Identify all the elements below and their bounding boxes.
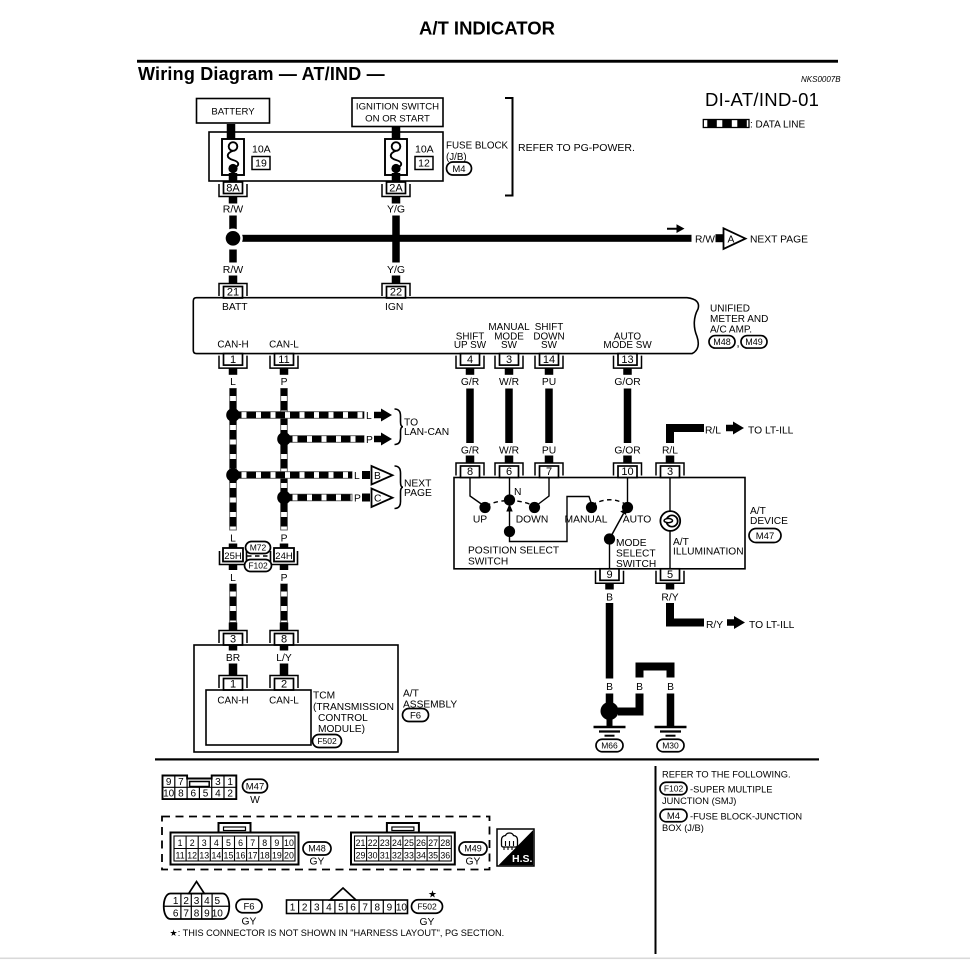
svg-text:6: 6 — [190, 789, 196, 800]
svg-text:JUNCTION (SMJ): JUNCTION (SMJ) — [662, 796, 736, 806]
svg-text:7: 7 — [362, 903, 368, 914]
svg-text:1: 1 — [290, 903, 296, 914]
svg-text:9: 9 — [606, 569, 612, 581]
svg-text:M49: M49 — [464, 844, 482, 854]
svg-text:R/L: R/L — [662, 446, 678, 457]
svg-text:F6: F6 — [243, 901, 254, 912]
svg-text:G/OR: G/OR — [614, 377, 640, 388]
svg-text:6: 6 — [238, 838, 243, 848]
svg-text:BATTERY: BATTERY — [211, 107, 255, 118]
svg-text:28: 28 — [440, 838, 450, 848]
svg-text:P: P — [281, 573, 288, 584]
svg-text:4: 4 — [467, 354, 473, 366]
svg-text:NEXT PAGE: NEXT PAGE — [750, 234, 808, 245]
svg-text:A/T: A/T — [403, 689, 419, 700]
svg-text:10: 10 — [621, 466, 633, 478]
svg-text:C: C — [374, 494, 382, 505]
svg-text:8: 8 — [178, 789, 184, 800]
svg-text:2: 2 — [190, 838, 195, 848]
svg-text:2: 2 — [227, 789, 233, 800]
svg-text:F102: F102 — [248, 560, 268, 570]
svg-text:4: 4 — [215, 789, 221, 800]
svg-text:PAGE: PAGE — [404, 488, 432, 499]
svg-text:Y/G: Y/G — [387, 264, 405, 276]
svg-text:34: 34 — [416, 851, 426, 861]
svg-text:DI-AT/IND-01: DI-AT/IND-01 — [705, 89, 819, 110]
svg-text:SELECT: SELECT — [616, 549, 656, 560]
svg-text:12: 12 — [418, 158, 430, 170]
svg-text:TCM: TCM — [313, 691, 335, 702]
svg-text:M4: M4 — [667, 811, 680, 822]
svg-text:TO LT-ILL: TO LT-ILL — [748, 426, 794, 437]
svg-text:IGNITION SWITCH: IGNITION SWITCH — [356, 102, 439, 113]
svg-text:W/R: W/R — [499, 377, 519, 388]
svg-text:10A: 10A — [252, 144, 271, 156]
svg-text:A: A — [728, 235, 735, 246]
svg-text:REFER TO PG-POWER.: REFER TO PG-POWER. — [518, 142, 635, 154]
svg-text:B: B — [374, 471, 381, 482]
svg-text:★: THIS CONNECTOR IS NOT SHOWN: ★: THIS CONNECTOR IS NOT SHOWN IN "HARNE… — [170, 928, 505, 938]
svg-text:10: 10 — [212, 909, 224, 920]
svg-text:15: 15 — [224, 851, 234, 861]
svg-text:33: 33 — [404, 851, 414, 861]
svg-text:M49: M49 — [745, 337, 763, 347]
svg-text:G/R: G/R — [461, 446, 479, 457]
svg-text:H.S.: H.S. — [512, 853, 533, 865]
svg-text:3: 3 — [215, 777, 221, 788]
svg-text:★: ★ — [428, 890, 437, 901]
svg-text:UP SW: UP SW — [454, 340, 487, 351]
svg-text:CAN-H: CAN-H — [217, 340, 248, 351]
svg-text:M66: M66 — [601, 740, 618, 750]
svg-text:18: 18 — [260, 851, 270, 861]
svg-text:32: 32 — [392, 851, 402, 861]
svg-text:3: 3 — [202, 838, 207, 848]
svg-text:B: B — [606, 682, 613, 693]
svg-text:AUTO: AUTO — [623, 515, 651, 526]
svg-text:7: 7 — [178, 777, 184, 788]
svg-text:GY: GY — [242, 917, 257, 928]
svg-text:PU: PU — [542, 446, 556, 457]
svg-text:23: 23 — [380, 838, 390, 848]
svg-text:22: 22 — [390, 286, 402, 298]
svg-text:P: P — [281, 377, 288, 388]
svg-text:4: 4 — [326, 903, 332, 914]
svg-text:R/Y: R/Y — [661, 593, 678, 604]
svg-text:12: 12 — [187, 851, 197, 861]
svg-text:2: 2 — [183, 896, 189, 907]
svg-text:M30: M30 — [662, 740, 679, 750]
svg-text:TO LT-ILL: TO LT-ILL — [749, 620, 795, 631]
svg-text:21: 21 — [356, 838, 366, 848]
svg-text:20: 20 — [284, 851, 294, 861]
svg-text:ON OR START: ON OR START — [365, 114, 430, 125]
svg-text:5: 5 — [338, 903, 344, 914]
svg-text:F6: F6 — [410, 710, 421, 721]
svg-text:M47: M47 — [756, 531, 774, 542]
svg-text:MANUAL: MANUAL — [565, 515, 608, 526]
svg-text:ILLUMINATION: ILLUMINATION — [673, 547, 744, 558]
svg-text:B: B — [636, 682, 643, 693]
svg-text:REFER TO THE FOLLOWING.: REFER TO THE FOLLOWING. — [662, 770, 791, 780]
svg-text:2A: 2A — [389, 182, 403, 194]
svg-text:METER AND: METER AND — [710, 314, 768, 325]
svg-text:3: 3 — [667, 466, 673, 478]
svg-text:M48: M48 — [308, 844, 326, 854]
svg-text:(TRANSMISSION: (TRANSMISSION — [313, 702, 394, 713]
svg-text:6: 6 — [173, 909, 179, 920]
svg-text:1: 1 — [227, 777, 233, 788]
svg-text:NKS0007B: NKS0007B — [801, 75, 841, 84]
svg-text:26: 26 — [416, 838, 426, 848]
svg-text:F502: F502 — [317, 736, 337, 746]
svg-text:13: 13 — [621, 354, 633, 366]
svg-text:LAN-CAN: LAN-CAN — [404, 427, 449, 438]
svg-text:9: 9 — [204, 909, 210, 920]
svg-text:30: 30 — [368, 851, 378, 861]
svg-text:B: B — [606, 593, 613, 604]
svg-text:L/Y: L/Y — [276, 653, 292, 664]
svg-text:F102: F102 — [664, 783, 684, 793]
svg-text:8: 8 — [194, 909, 200, 920]
svg-text:G/OR: G/OR — [614, 446, 640, 457]
svg-text:17: 17 — [248, 851, 258, 861]
svg-text:L: L — [366, 411, 372, 422]
svg-text:25: 25 — [404, 838, 414, 848]
svg-text:9: 9 — [166, 777, 172, 788]
svg-text:M48: M48 — [713, 337, 731, 347]
svg-text:P: P — [366, 435, 373, 446]
svg-text:5: 5 — [667, 569, 673, 581]
svg-text:16: 16 — [236, 851, 246, 861]
svg-text:: DATA LINE: : DATA LINE — [750, 120, 806, 131]
svg-text:8A: 8A — [226, 182, 240, 194]
svg-text:R/W: R/W — [223, 264, 244, 276]
svg-text:36: 36 — [440, 851, 450, 861]
svg-text:19: 19 — [272, 851, 282, 861]
svg-text:W: W — [250, 795, 260, 806]
svg-text:24: 24 — [392, 838, 402, 848]
svg-text:11: 11 — [278, 354, 289, 366]
svg-text:MODE SW: MODE SW — [603, 340, 652, 351]
svg-text:L: L — [230, 377, 236, 388]
svg-text:3: 3 — [230, 633, 236, 645]
svg-text:DOWN: DOWN — [516, 515, 549, 526]
svg-text:-FUSE BLOCK-JUNCTION: -FUSE BLOCK-JUNCTION — [690, 812, 802, 822]
svg-text:G/R: G/R — [461, 377, 479, 388]
svg-text:M4: M4 — [452, 164, 465, 175]
svg-text:14: 14 — [543, 354, 555, 366]
svg-text:FUSE BLOCK: FUSE BLOCK — [446, 141, 509, 152]
svg-text:2: 2 — [281, 678, 287, 690]
svg-text:3: 3 — [314, 903, 320, 914]
svg-text:8: 8 — [467, 466, 473, 478]
svg-text:14: 14 — [211, 851, 221, 861]
svg-text:3: 3 — [506, 354, 512, 366]
svg-text:B: B — [667, 682, 674, 693]
svg-text:19: 19 — [255, 158, 267, 170]
svg-text:SW: SW — [501, 340, 518, 351]
svg-text:BR: BR — [226, 653, 240, 664]
svg-text:PU: PU — [542, 377, 556, 388]
svg-text:Y/G: Y/G — [387, 204, 405, 216]
svg-text:11: 11 — [175, 851, 184, 861]
svg-text:UNIFIED: UNIFIED — [710, 304, 750, 315]
svg-text:GY: GY — [310, 857, 325, 868]
svg-text:A/T INDICATOR: A/T INDICATOR — [419, 18, 555, 39]
svg-text:W/R: W/R — [499, 446, 519, 457]
svg-text:BOX (J/B): BOX (J/B) — [662, 823, 704, 833]
svg-text:R/W: R/W — [223, 204, 244, 216]
svg-text:P: P — [281, 534, 288, 545]
svg-text:31: 31 — [380, 851, 390, 861]
svg-text:MODULE): MODULE) — [318, 724, 365, 735]
svg-text:21: 21 — [227, 286, 239, 298]
svg-text:DEVICE: DEVICE — [750, 516, 788, 527]
svg-text:7: 7 — [250, 838, 255, 848]
svg-text:CAN-L: CAN-L — [269, 696, 299, 707]
svg-text:13: 13 — [199, 851, 209, 861]
svg-text:8: 8 — [281, 633, 287, 645]
svg-text:L: L — [354, 471, 360, 482]
svg-text:M47: M47 — [246, 781, 264, 792]
svg-text:5: 5 — [203, 789, 209, 800]
svg-text:-SUPER MULTIPLE: -SUPER MULTIPLE — [690, 785, 772, 795]
svg-text:L: L — [230, 573, 236, 584]
svg-text:10: 10 — [163, 789, 175, 800]
svg-text:MODE: MODE — [616, 538, 647, 549]
svg-text:,: , — [737, 338, 740, 350]
svg-text:SWITCH: SWITCH — [616, 559, 656, 570]
svg-text:1: 1 — [230, 354, 236, 366]
svg-text:POSITION SELECT: POSITION SELECT — [468, 546, 559, 557]
svg-text:BATT: BATT — [222, 302, 248, 313]
svg-text:CAN-L: CAN-L — [269, 340, 299, 351]
svg-text:1: 1 — [173, 896, 179, 907]
svg-text:GY: GY — [420, 917, 435, 928]
svg-text:5: 5 — [215, 896, 221, 907]
svg-text:CONTROL: CONTROL — [318, 713, 368, 724]
svg-text:25H: 25H — [224, 551, 242, 562]
svg-text:SW: SW — [541, 340, 558, 351]
svg-text:CAN-H: CAN-H — [217, 696, 248, 707]
svg-text:5: 5 — [226, 838, 231, 848]
svg-text:GY: GY — [466, 857, 481, 868]
svg-text:10: 10 — [396, 903, 408, 914]
svg-text:24H: 24H — [275, 551, 293, 562]
svg-text:6: 6 — [506, 466, 512, 478]
svg-text:9: 9 — [387, 903, 393, 914]
svg-text:L: L — [230, 534, 236, 545]
svg-text:1: 1 — [178, 838, 183, 848]
svg-text:UP: UP — [473, 515, 487, 526]
svg-text:35: 35 — [428, 851, 438, 861]
svg-text:1: 1 — [230, 678, 236, 690]
svg-text:Wiring Diagram — AT/IND —: Wiring Diagram — AT/IND — — [138, 64, 385, 84]
svg-text:F502: F502 — [417, 901, 437, 911]
svg-text:8: 8 — [262, 838, 267, 848]
svg-text:R/W: R/W — [695, 234, 715, 245]
svg-text:29: 29 — [356, 851, 366, 861]
svg-text:N: N — [514, 487, 521, 498]
svg-text:P: P — [354, 494, 361, 505]
svg-text:22: 22 — [368, 838, 378, 848]
svg-text:8: 8 — [374, 903, 380, 914]
svg-text:M72: M72 — [250, 542, 267, 552]
svg-text:4: 4 — [204, 896, 210, 907]
svg-text:IGN: IGN — [385, 302, 403, 313]
svg-text:A/C AMP.: A/C AMP. — [710, 325, 752, 336]
svg-text:4: 4 — [214, 838, 219, 848]
svg-text:R/L: R/L — [705, 426, 721, 437]
svg-text:6: 6 — [350, 903, 356, 914]
svg-text:10: 10 — [284, 838, 294, 848]
svg-text:27: 27 — [428, 838, 438, 848]
svg-text:9: 9 — [274, 838, 279, 848]
svg-text:2: 2 — [302, 903, 308, 914]
svg-text:R/Y: R/Y — [706, 620, 723, 631]
svg-text:10A: 10A — [415, 144, 434, 156]
svg-text:SWITCH: SWITCH — [468, 557, 508, 568]
svg-text:7: 7 — [183, 909, 189, 920]
svg-text:3: 3 — [194, 896, 200, 907]
svg-text:7: 7 — [546, 466, 552, 478]
